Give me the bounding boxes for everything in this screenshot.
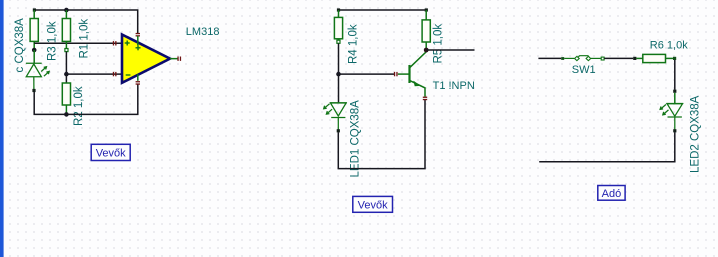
label box Vevok (left) (91, 144, 130, 160)
pin ticks emitter (423, 97, 427, 101)
LED2 symbol (660, 104, 683, 130)
wire bottom rail (right circuit) (539, 132, 675, 162)
wire base node down to LED1 (338, 74, 340, 103)
junction dot (R2 / bottom rail) (64, 112, 69, 117)
wire top rail (left circuit) (34, 10, 137, 34)
pin ticks base (394, 72, 398, 76)
svg-text:Adó: Adó (602, 188, 622, 200)
pin ticks op-amp output (177, 57, 181, 61)
wire collector node to right (426, 49, 474, 51)
svg-text:T1 !NPN: T1 !NPN (433, 80, 475, 92)
wire-end square top-left (33, 8, 36, 11)
wire top rail (middle circuit) (339, 9, 427, 11)
resistor R1 (62, 10, 70, 49)
wire-end square middle rail right (425, 8, 428, 11)
wire-end square middle rail left (337, 8, 340, 11)
svg-text:R2 1,0k: R2 1,0k (73, 86, 85, 126)
resistor R5 (422, 10, 430, 50)
wire node to LED c (33, 50, 35, 63)
pin-end square R4 bottom (337, 40, 340, 43)
svg-text:R6 1,0k: R6 1,0k (650, 40, 688, 52)
label box Ado (598, 186, 625, 201)
svg-text:Vevők: Vevők (358, 199, 388, 211)
LED1 symbol (324, 103, 347, 130)
wire bottom rail (left circuit) (34, 84, 138, 114)
wire-end square LED1 bottom (337, 129, 340, 132)
label box Vevok (middle) (353, 196, 393, 212)
svg-text:SW1: SW1 (572, 64, 596, 76)
junction dot (base node) (336, 72, 341, 77)
transistor T1 (398, 50, 426, 96)
pin-end square R6 right (673, 57, 676, 60)
pin-end square R1 bottom (65, 49, 68, 52)
wire-end square LED c bottom (32, 89, 35, 92)
wire R1 to inverting node (65, 52, 67, 75)
wire into LED2 (674, 93, 676, 104)
junction dot (top rail / R1 top) (64, 8, 69, 13)
wire top left (right circuit) (538, 57, 561, 59)
wire-end square before R6 (633, 57, 636, 60)
junction dot (R3 bottom / LED) (32, 48, 37, 53)
svg-text:LED1 CQX38A: LED1 CQX38A (350, 100, 362, 178)
resistor R4 (334, 10, 342, 40)
junction dot (inverting node) (64, 72, 69, 77)
svg-text:LM318: LM318 (186, 26, 220, 38)
wire SW1 to R6 (604, 57, 633, 59)
pin ticks op-amp - input (113, 72, 117, 76)
wire bottom rail (middle circuit) (338, 100, 425, 169)
wire-end square LED2 bottom (673, 129, 676, 132)
wire to inverting input (66, 73, 122, 75)
switch SW1 (561, 56, 604, 61)
left window edge bar (0, 0, 4, 257)
LED c CQX38A symbol (26, 63, 49, 89)
wire base (339, 73, 395, 75)
resistor R6 (636, 54, 673, 62)
resistor R3 (30, 10, 38, 50)
wire-end square above LED2 (673, 90, 676, 93)
resistor R2 (62, 74, 70, 114)
svg-text:R4 1,0k: R4 1,0k (348, 24, 360, 64)
op-amp U1 LM318 (122, 35, 178, 83)
svg-text:c CQX38A: c CQX38A (14, 18, 26, 73)
svg-text:R5 1,0k: R5 1,0k (433, 24, 445, 64)
svg-text:Vevők: Vevők (96, 147, 126, 159)
wire to non-inverting input (34, 42, 122, 44)
pin ticks op-amp V+ (136, 33, 140, 37)
pin ticks op-amp + input (113, 41, 117, 45)
svg-text:R3 1,0k: R3 1,0k (47, 21, 59, 61)
pin ticks op-amp V- (136, 81, 140, 85)
wire R4 to base node (338, 43, 340, 74)
svg-text:R1 1,0k: R1 1,0k (79, 19, 91, 59)
junction dot (R5 / collector) (424, 48, 429, 53)
svg-text:LED2 CQX38A: LED2 CQX38A (690, 95, 702, 173)
wire R6 down to LED2 (674, 60, 676, 90)
